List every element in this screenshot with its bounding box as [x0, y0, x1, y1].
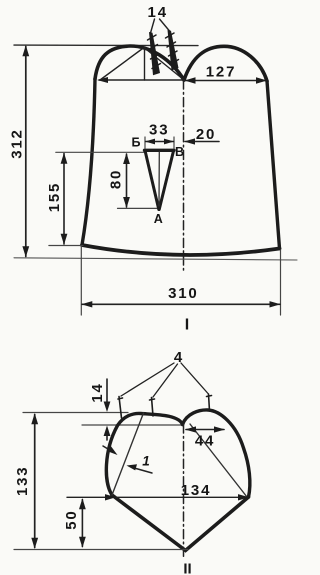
svg-text:Б: Б — [132, 135, 141, 149]
dimension 133 — [14, 413, 38, 548]
dimension 14 figure II — [89, 379, 110, 440]
dart Б-В-А — [145, 150, 175, 209]
notch level line figure II — [82, 424, 184, 426]
svg-text:133: 133 — [14, 466, 31, 496]
seam chord left lobe — [112, 413, 144, 495]
outline piece I: right edge — [267, 81, 280, 249]
crown fan line to left chord end — [100, 48, 144, 81]
bottom reference line figure I — [14, 258, 297, 260]
svg-text:I: I — [185, 316, 189, 333]
svg-text:В: В — [175, 145, 184, 159]
svg-text:44: 44 — [195, 432, 215, 449]
svg-text:14: 14 — [89, 382, 106, 402]
dimension 310 — [81, 246, 280, 315]
svg-text:1: 1 — [142, 454, 150, 469]
svg-text:134: 134 — [181, 482, 211, 499]
seam tick right — [207, 394, 212, 411]
hatched seam sliver left — [148, 32, 161, 75]
svg-text:33: 33 — [149, 121, 169, 138]
bottom reference line figure II — [14, 549, 188, 551]
svg-text:155: 155 — [46, 182, 63, 212]
svg-text:127: 127 — [206, 63, 236, 80]
svg-text:312: 312 — [8, 128, 25, 158]
label 4 leader lines — [121, 363, 208, 397]
outline piece I: left arc — [95, 46, 184, 80]
dimension 20 arrow to axis — [184, 126, 219, 145]
dimension 44 — [185, 426, 225, 449]
dimension 127 — [185, 63, 268, 83]
svg-text:14: 14 — [148, 4, 168, 21]
crown construction chord with left arrow — [97, 77, 184, 83]
seam tick middle — [150, 398, 155, 417]
dimension 80 — [108, 153, 157, 208]
centre dash-dot axis figure I — [183, 80, 185, 270]
svg-text:50: 50 — [63, 509, 80, 529]
dimension 134 width line — [67, 482, 249, 501]
centre dash-dot axis figure II — [183, 424, 185, 557]
hatched seam sliver right — [166, 30, 179, 71]
outline piece I: right arc — [184, 46, 267, 81]
top tangent line figure II — [23, 412, 128, 414]
dimension 33 — [145, 121, 174, 148]
dimension 50 — [63, 498, 86, 547]
svg-text:310: 310 — [168, 285, 198, 302]
label 1 leader arrows — [103, 446, 152, 473]
crown fan vertical — [144, 48, 146, 81]
crown fan line to notch — [144, 48, 184, 81]
outline piece I: bottom hem curve — [82, 245, 280, 255]
svg-text:80: 80 — [108, 169, 125, 189]
svg-text:4: 4 — [174, 349, 183, 366]
outline piece II: bottom V edges — [112, 495, 249, 551]
svg-text:20: 20 — [196, 126, 216, 143]
dimension 312 — [8, 45, 29, 257]
outline piece I: left edge — [82, 79, 95, 245]
svg-text:II: II — [183, 560, 191, 575]
top tangent line figure I — [14, 44, 198, 47]
label 14 leader lines — [151, 19, 170, 33]
seam tick left — [118, 397, 123, 419]
outline piece II: right lobe arc — [183, 410, 250, 497]
seam chord right lobe — [190, 424, 247, 497]
outline piece II: left lobe arc — [106, 413, 182, 495]
dimension 155 — [46, 152, 146, 245]
svg-text:А: А — [154, 212, 163, 226]
